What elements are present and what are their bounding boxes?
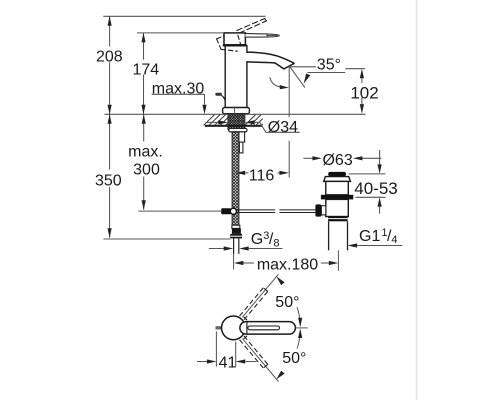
35deg line left of text (290, 66, 316, 68)
35deg leader arrow (304, 74, 311, 84)
pop-up rod guide block (239, 132, 245, 142)
max180 arrows (234, 261, 244, 265)
max30 leader (152, 93, 205, 95)
water stream diagonal (290, 67, 305, 88)
svg-text:35°: 35° (317, 56, 341, 73)
top reference line 208 (103, 15, 265, 17)
41 extension lines (215, 332, 217, 367)
svg-text:50°: 50° (282, 350, 306, 367)
lever top view (240, 322, 296, 335)
dim line 350 (109, 114, 111, 169)
dim line 102 (361, 78, 363, 83)
50deg lower extension line (242, 339, 278, 382)
centreline right (296, 327, 308, 329)
116 arrows (236, 171, 246, 175)
dim line 208 (109, 16, 111, 46)
svg-text:41: 41 (219, 355, 237, 372)
waste nut (328, 216, 347, 221)
G3/8 arrows (224, 246, 234, 250)
deck surface line (105, 113, 366, 115)
dia34 arrows (218, 120, 228, 124)
spout (247, 52, 294, 69)
knob neck (321, 206, 325, 215)
waste centre extension line (337, 250, 339, 271)
dim line max300 (143, 114, 145, 141)
dim line 40-53 (379, 150, 381, 164)
hose nut (230, 234, 242, 239)
hose end collar (232, 225, 240, 228)
reference line 174 (137, 32, 224, 34)
horizontal pop-up rod (237, 210, 316, 213)
faucet centre extension line (233, 254, 235, 270)
reference line max300 bottom (138, 210, 221, 212)
reference line clamp top (356, 196, 386, 198)
35deg leader under text (308, 72, 346, 74)
faucet body (225, 45, 247, 107)
svg-text:40-53: 40-53 (354, 179, 397, 198)
reference line flange top (349, 173, 386, 175)
lever left stub (216, 326, 222, 329)
dashed raised lever position (237, 19, 267, 34)
svg-text:Ø34: Ø34 (268, 119, 298, 136)
pop-up rod lower (239, 142, 243, 153)
svg-text:300: 300 (133, 161, 160, 178)
dia34 dim lines (207, 121, 219, 123)
waste body upper (326, 181, 349, 194)
arc arrowheads (276, 276, 302, 379)
hose end fitting (232, 228, 241, 234)
svg-text:350: 350 (95, 173, 122, 190)
lever handle side view (245, 34, 279, 38)
body circle top view (222, 316, 246, 340)
dim line 116 (245, 172, 248, 174)
svg-text:max.180: max.180 (257, 257, 318, 274)
102 arrows (360, 69, 364, 79)
svg-text:174: 174 (132, 61, 159, 78)
base flange (223, 107, 250, 114)
waste body lower (326, 199, 349, 216)
deck bottom thick line (205, 125, 263, 127)
divider line right (416, 0, 418, 400)
svg-text:208: 208 (96, 49, 123, 66)
svg-text:max.: max. (128, 144, 163, 161)
G3/8 dim lines (209, 248, 224, 250)
lever base tick (246, 322, 248, 334)
350 arrows (108, 114, 112, 124)
max30 arrow (202, 105, 206, 115)
dim line 41 (197, 361, 207, 363)
waste tailpipe (329, 221, 348, 250)
max300 arrows (142, 114, 146, 124)
svg-text:max.30: max.30 (152, 81, 205, 98)
swivel arc (270, 77, 282, 87)
pop-up pull rod knob (215, 93, 225, 101)
svg-text:50°: 50° (275, 294, 299, 311)
threaded shank (cross hatched) (228, 115, 245, 130)
braided supply hose (232, 132, 239, 228)
dashed tilted cap position (217, 35, 241, 51)
50deg upper extension line (242, 274, 278, 317)
50deg lower arc (297, 333, 300, 349)
junction ticks (244, 317, 248, 320)
50deg upper arc (297, 307, 300, 323)
deck hatching (204, 115, 263, 126)
dim line 174 (143, 33, 145, 60)
svg-text:102: 102 (350, 83, 378, 102)
swivel arc arrow (280, 85, 289, 89)
208 arrows (108, 16, 112, 26)
svg-text:Ø63: Ø63 (322, 152, 352, 169)
rod clamp bar (221, 208, 231, 214)
dashed lever upper 50deg (240, 288, 268, 320)
G1 1/4 dim line (357, 245, 402, 247)
washer under deck (229, 128, 247, 132)
41 arrows (207, 359, 217, 363)
lever slot (248, 326, 280, 330)
reference line 350 bottom (103, 238, 230, 240)
dim line max180 (243, 262, 254, 264)
40-53 arrows (378, 164, 382, 174)
rod clamp joint circle (230, 208, 236, 214)
waste flange (324, 177, 351, 182)
G1 1/4 arrow (348, 243, 358, 247)
dia63 dim line (303, 157, 312, 159)
G3/8 tube (234, 238, 239, 254)
svg-text:116: 116 (249, 168, 275, 185)
dashed lever lower 50deg (240, 336, 268, 368)
waste plug cap (328, 172, 346, 176)
reference line 102 top / 35deg right (345, 68, 365, 70)
spout outlet extension line (288, 67, 290, 117)
rod ball joint knob (315, 204, 321, 216)
174 arrows (141, 33, 145, 43)
dia63 arrows (312, 156, 322, 160)
waste clamp ring (321, 195, 353, 200)
handle cap (224, 33, 246, 45)
